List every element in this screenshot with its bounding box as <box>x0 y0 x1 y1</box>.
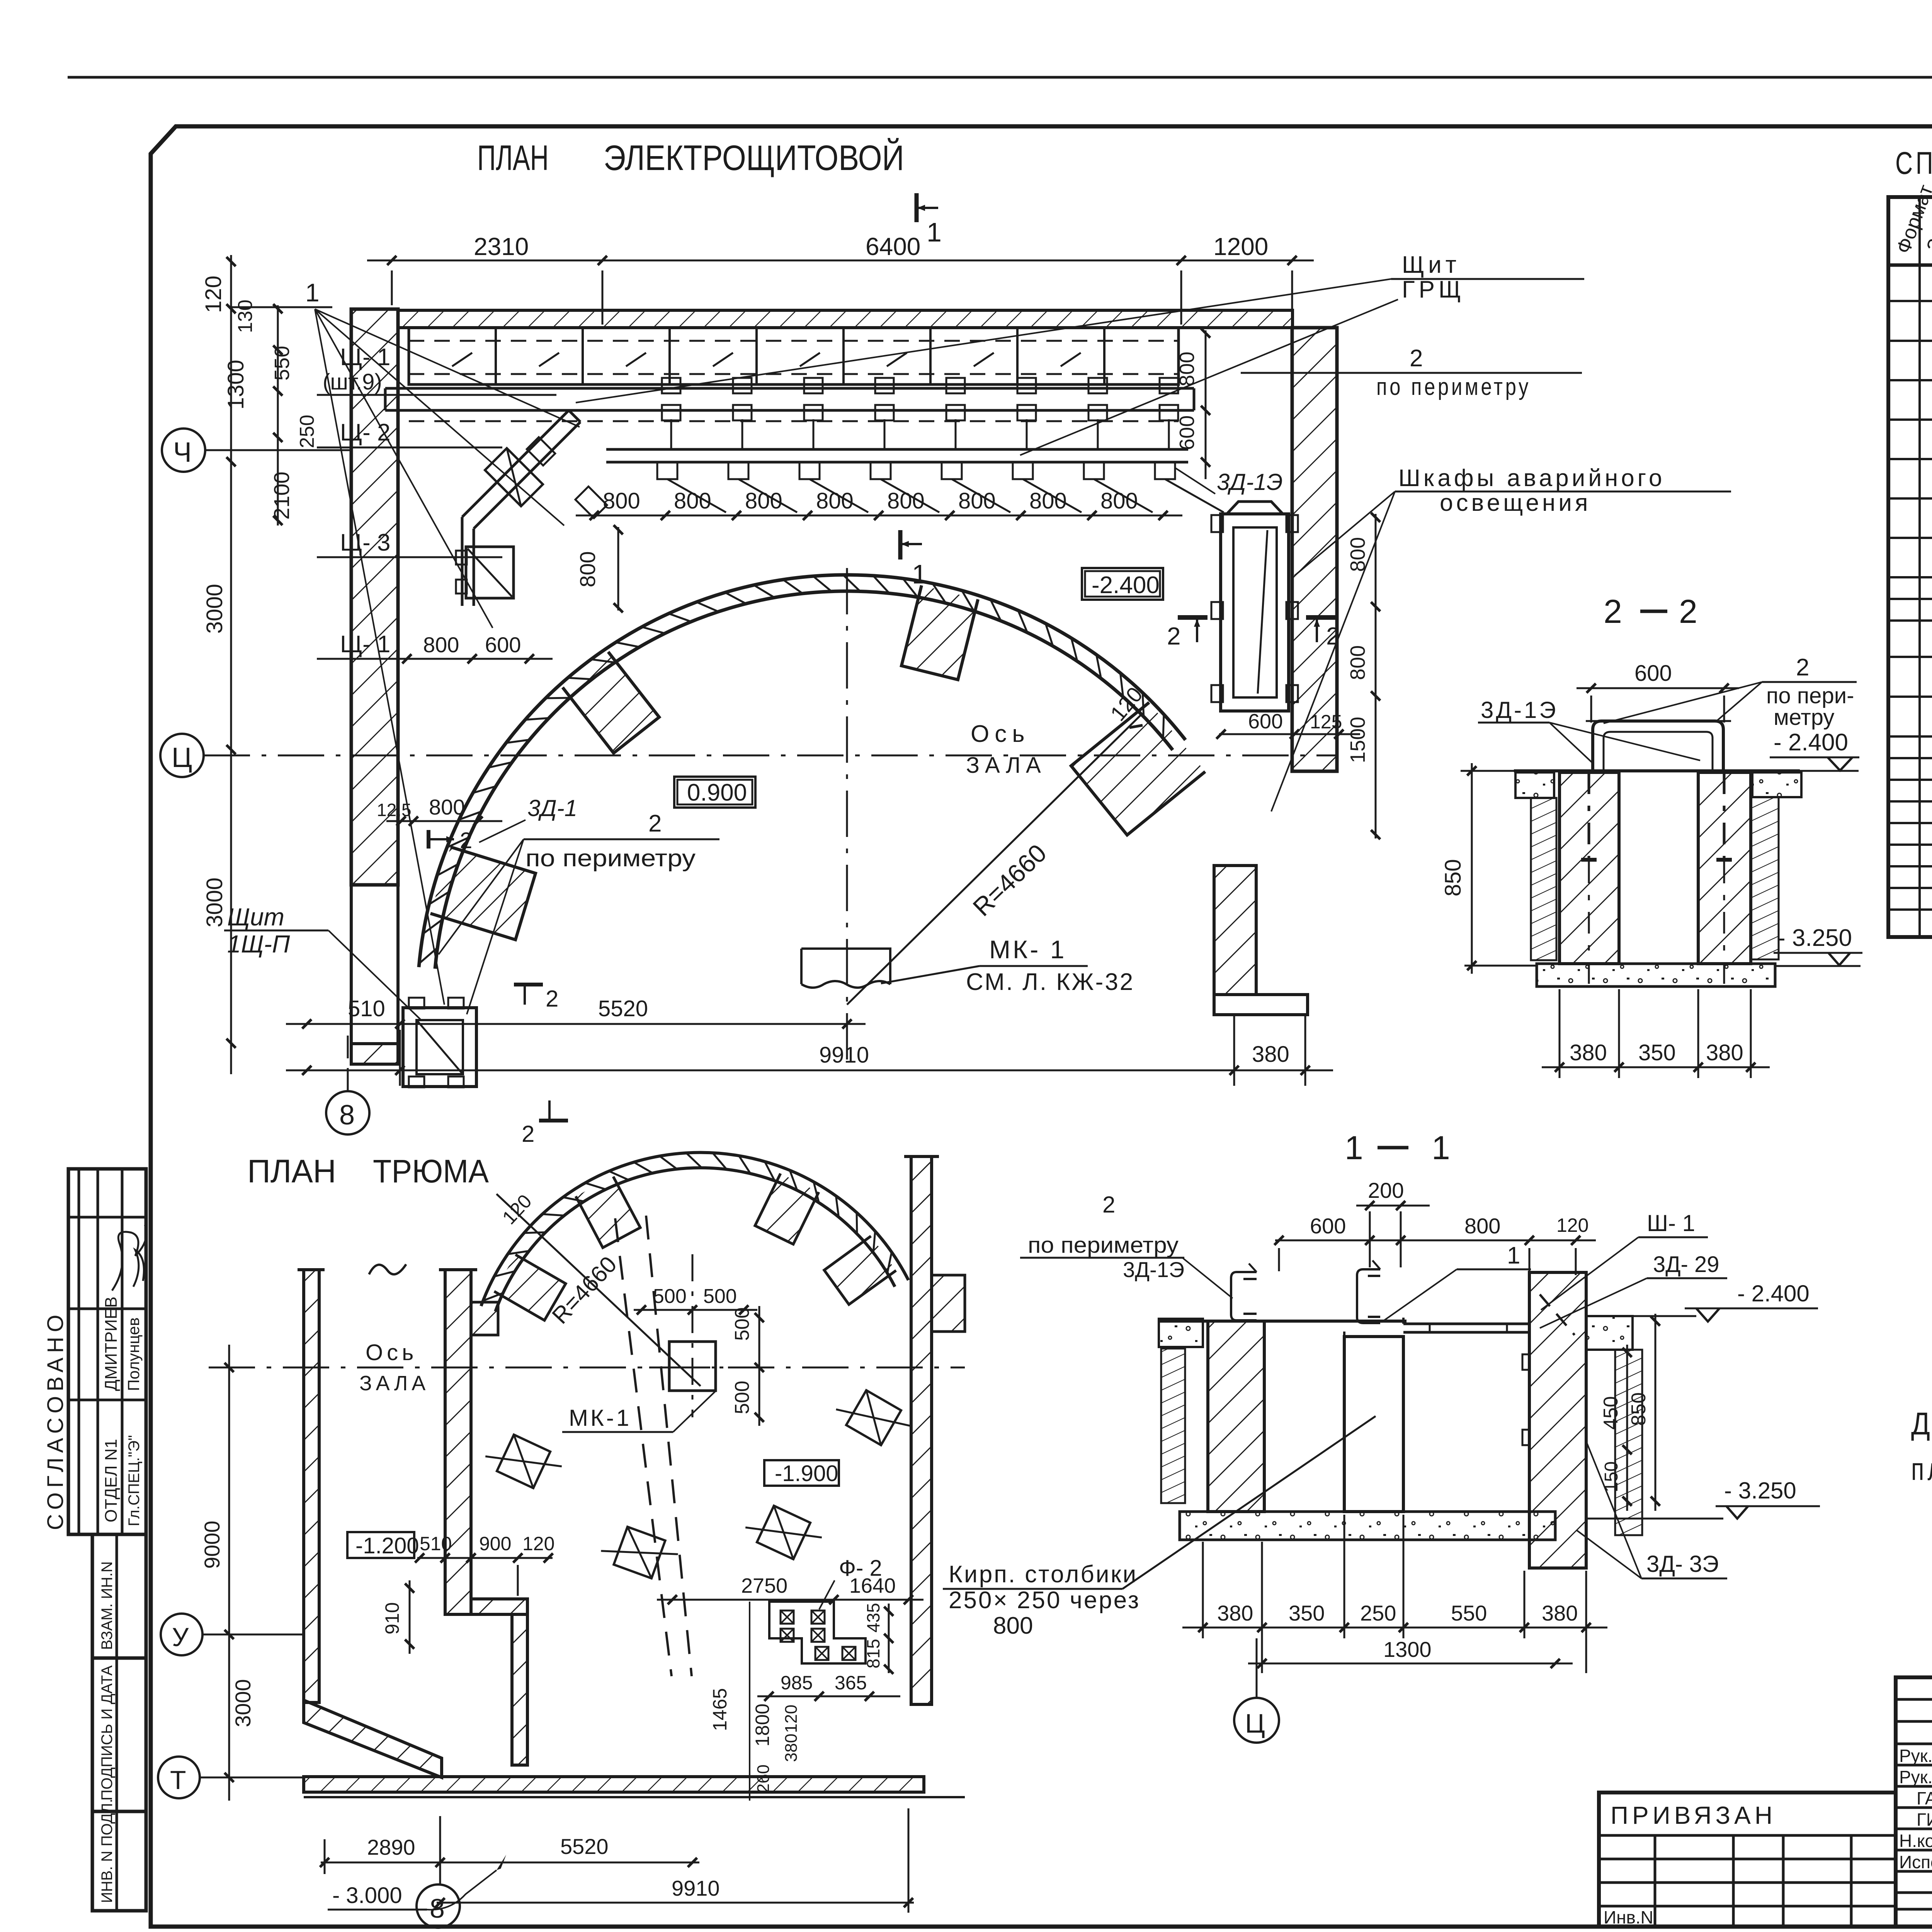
svg-text:по периметру: по периметру <box>1028 1233 1179 1258</box>
svg-text:1: 1 <box>305 278 320 307</box>
svg-text:9910: 9910 <box>672 1876 720 1900</box>
svg-text:Ч: Ч <box>173 437 192 468</box>
svg-text:3000: 3000 <box>202 584 227 634</box>
svg-text:Полунцев: Полунцев <box>124 1317 143 1391</box>
grid circle Ч <box>162 429 205 472</box>
wall top caps and break <box>298 1268 325 1271</box>
busbar 2 clamps <box>657 462 677 479</box>
anchor group Ф-2 <box>769 1602 866 1663</box>
svg-text:12,5: 12,5 <box>377 800 412 820</box>
leader diagonals to dim ticks <box>667 479 726 512</box>
floor line <box>1159 1320 1406 1323</box>
top dims 600 200 800 120 <box>1275 1240 1596 1242</box>
svg-text:- 2.400: - 2.400 <box>1737 1281 1810 1306</box>
svg-text:800: 800 <box>575 551 600 587</box>
svg-text:800: 800 <box>1464 1214 1500 1238</box>
arc wall inner line <box>435 591 1173 969</box>
earth hatch left <box>1161 1349 1185 1503</box>
big room right wall <box>911 1156 932 1704</box>
inner wall vertical to bottom <box>512 1614 527 1765</box>
svg-text:800: 800 <box>993 1612 1033 1639</box>
svg-text:Кирп. столбики: Кирп. столбики <box>949 1561 1138 1588</box>
grid circle Т <box>158 1757 200 1798</box>
МК-1 dims 500 500 <box>634 1309 757 1311</box>
level box -1.900 <box>764 1460 839 1486</box>
earth hatch right <box>1751 797 1779 959</box>
corner cabinet <box>466 547 514 598</box>
svg-text:120: 120 <box>201 276 226 313</box>
wall notch left room <box>471 1302 498 1335</box>
svg-text:800: 800 <box>1175 352 1199 386</box>
level box -1.200 <box>347 1532 414 1558</box>
left room left wall <box>304 1270 319 1702</box>
svg-text:МК- 1: МК- 1 <box>989 935 1066 964</box>
svg-text:Ось: Ось <box>971 721 1030 747</box>
svg-text:Ось: Ось <box>366 1340 417 1365</box>
arc niche 2 <box>901 585 978 680</box>
svg-text:2: 2 <box>1679 593 1697 630</box>
svg-text:- 3.000: - 3.000 <box>332 1883 402 1908</box>
svg-text:1: 1 <box>1345 1129 1363 1167</box>
channel ЗД-1Э lying <box>1593 721 1723 770</box>
busbar 1 <box>385 387 1194 390</box>
top wall band <box>398 310 1293 328</box>
right wall lower block with arc pier <box>1214 866 1256 995</box>
svg-text:365: 365 <box>835 1672 867 1694</box>
svg-text:Рук.АБ-1: Рук.АБ-1 <box>1899 1746 1932 1766</box>
svg-text:Щ- 1: Щ- 1 <box>340 631 390 658</box>
grid circle Ц section <box>1234 1698 1279 1743</box>
svg-text:200: 200 <box>1368 1178 1404 1202</box>
svg-text:3000: 3000 <box>231 1679 255 1727</box>
svg-text:Рук.КБ-1: Рук.КБ-1 <box>1899 1767 1932 1787</box>
left dim chain A <box>230 255 232 1074</box>
svg-text:СМ. Л. КЖ-32: СМ. Л. КЖ-32 <box>966 969 1134 995</box>
panel top plate <box>1402 1318 1405 1324</box>
section flags 2 at 1Щ-П <box>514 983 543 986</box>
svg-text:1200: 1200 <box>1213 233 1268 260</box>
concrete slab right <box>1586 1316 1633 1350</box>
svg-text:ИНВ. N ПОДЛ.: ИНВ. N ПОДЛ. <box>99 1799 116 1903</box>
dim 910 <box>409 1580 411 1654</box>
dims 380 350 380 <box>1542 1066 1770 1068</box>
left pier <box>1208 1321 1264 1512</box>
corner rotated connector 1 <box>527 437 555 466</box>
svg-text:1300: 1300 <box>1383 1637 1432 1662</box>
busbar 1 clamps <box>662 378 680 393</box>
svg-text:2100: 2100 <box>269 471 294 520</box>
1Щ-П dims 125 800 <box>386 820 502 822</box>
left wall lower part <box>351 885 398 1044</box>
left wall bottom band <box>351 1044 398 1064</box>
svg-text:2: 2 <box>1796 654 1809 681</box>
hold arc wall <box>481 1153 908 1306</box>
arc end pier (hatched) <box>1071 702 1205 835</box>
dim row 800x8 <box>576 515 1182 517</box>
svg-text:3Д- 3Э: 3Д- 3Э <box>1646 1551 1719 1577</box>
svg-text:1300: 1300 <box>223 360 248 410</box>
svg-text:1Щ-П: 1Щ-П <box>227 930 290 958</box>
svg-text:-1.200: -1.200 <box>355 1533 419 1558</box>
svg-text:(шт.9): (шт.9) <box>323 369 382 395</box>
bottom dims 2890 5520 <box>321 1862 699 1864</box>
bottom dim line 510/5520 <box>286 1023 866 1025</box>
right wall stub <box>932 1275 965 1332</box>
svg-text:Щит: Щит <box>227 903 284 931</box>
left stamp lower block <box>92 1534 146 1911</box>
hold arc niches <box>494 1255 566 1320</box>
left dim chain B <box>277 305 279 526</box>
svg-text:3Д-1Э: 3Д-1Э <box>1217 469 1283 495</box>
svg-text:ГИП: ГИП <box>1917 1810 1932 1830</box>
svg-text:2310: 2310 <box>474 233 529 260</box>
svg-text:500: 500 <box>653 1285 687 1308</box>
svg-text:550: 550 <box>270 346 294 381</box>
svg-text:6400: 6400 <box>866 233 920 260</box>
spec table grid <box>1888 197 1932 937</box>
svg-text:СОГЛАСОВАНО: СОГЛАСОВАНО <box>43 1310 68 1530</box>
panel row diagonal ticks <box>452 353 472 366</box>
svg-text:510: 510 <box>348 996 385 1021</box>
arc niche 1 <box>563 652 659 753</box>
svg-text:ЗАЛА: ЗАЛА <box>359 1372 429 1395</box>
svg-text:8: 8 <box>430 1893 445 1923</box>
svg-text:ПЛАН: ПЛАН <box>247 1153 336 1189</box>
hold radius line <box>497 1194 701 1386</box>
svg-text:120: 120 <box>782 1705 801 1733</box>
right wall foot slab <box>1214 995 1308 1015</box>
svg-text:2: 2 <box>1326 622 1340 650</box>
МК-1 square <box>669 1342 716 1391</box>
dashed brace in right wall <box>1540 1294 1575 1335</box>
svg-text:800: 800 <box>1100 488 1138 514</box>
bus duct ЗД-29 <box>1403 1323 1529 1325</box>
svg-text:380: 380 <box>782 1734 801 1762</box>
svg-text:9910: 9910 <box>819 1043 869 1068</box>
right wall column <box>1292 328 1337 771</box>
svg-text:5520: 5520 <box>560 1834 609 1859</box>
svg-text:800: 800 <box>674 488 711 514</box>
svg-text:380: 380 <box>1252 1042 1289 1067</box>
concrete slab left <box>1159 1319 1203 1347</box>
svg-text:380: 380 <box>1217 1601 1253 1625</box>
right cabinet top cap <box>1227 502 1283 514</box>
svg-text:800: 800 <box>423 633 459 657</box>
svg-text:850: 850 <box>1628 1392 1650 1426</box>
dims 435 815 <box>888 1604 890 1673</box>
svg-text:ЗАЛА: ЗАЛА <box>966 753 1046 778</box>
svg-text:Щит: Щит <box>1402 252 1460 278</box>
corner cabinet clamps <box>456 551 467 565</box>
floor line <box>1514 769 1800 772</box>
svg-text:ГАП: ГАП <box>1917 1788 1932 1808</box>
svg-text:130: 130 <box>234 299 257 333</box>
svg-text:5520: 5520 <box>598 996 648 1021</box>
svg-text:1: 1 <box>1507 1242 1520 1269</box>
right cabinet clamps <box>1211 515 1223 532</box>
left room right wall <box>445 1270 471 1614</box>
svg-text:3Д-1Э: 3Д-1Э <box>1481 697 1558 723</box>
svg-text:2: 2 <box>522 1121 534 1147</box>
svg-text:850: 850 <box>1440 859 1466 896</box>
left room diagonal wall <box>304 1700 442 1777</box>
svg-text:Исполн.: Исполн. <box>1899 1852 1932 1872</box>
svg-text:500: 500 <box>731 1307 753 1341</box>
svg-text:ВЗАМ. ИН.N: ВЗАМ. ИН.N <box>99 1561 116 1650</box>
svg-text:9000: 9000 <box>200 1520 224 1569</box>
hold axis line <box>209 1367 965 1369</box>
wall clamps <box>1522 1354 1529 1370</box>
right cabinet dim chain <box>1375 514 1377 838</box>
svg-text:800: 800 <box>816 488 854 514</box>
svg-text:350: 350 <box>1289 1601 1325 1625</box>
svg-text:800: 800 <box>745 488 782 514</box>
svg-text:510: 510 <box>420 1533 452 1554</box>
dims 985 365 <box>757 1696 900 1697</box>
svg-text:Н.контр.: Н.контр. <box>1899 1831 1932 1851</box>
svg-text:2: 2 <box>460 828 472 853</box>
svg-text:380: 380 <box>1706 1040 1743 1065</box>
grid circle Ц <box>160 734 204 777</box>
svg-text:250× 250 через: 250× 250 через <box>949 1587 1140 1614</box>
earth hatch right <box>1615 1350 1642 1535</box>
middle channel <box>1357 1269 1380 1323</box>
svg-text:1800: 1800 <box>752 1704 773 1747</box>
svg-text:600: 600 <box>1634 661 1672 686</box>
right dim chains 450 150 850 <box>1626 1345 1628 1511</box>
svg-text:910: 910 <box>381 1602 403 1634</box>
tilted squares <box>482 1428 565 1495</box>
svg-text:1640: 1640 <box>849 1574 896 1597</box>
panel row большой щит <box>409 328 1179 384</box>
svg-text:500: 500 <box>731 1381 753 1414</box>
arc wall outer line <box>419 575 1185 967</box>
svg-text:освещения: освещения <box>1440 490 1591 516</box>
corner rotated connector 2 <box>575 486 607 518</box>
svg-text:Ш- 1: Ш- 1 <box>1647 1210 1695 1236</box>
svg-text:ГРЩ: ГРЩ <box>1402 276 1465 303</box>
title block texts <box>1604 1691 1932 1927</box>
section flag 1 mid <box>898 530 903 560</box>
grid circle У <box>161 1614 202 1655</box>
svg-text:ПОДПИСЬ И ДАТА: ПОДПИСЬ И ДАТА <box>99 1665 116 1801</box>
svg-text:Щ- 3: Щ- 3 <box>340 529 390 556</box>
flag 2 near 1Щ-П dims <box>427 830 430 849</box>
svg-text:1: 1 <box>912 559 927 589</box>
svg-text:2750: 2750 <box>741 1574 787 1597</box>
svg-text:1: 1 <box>1432 1129 1450 1167</box>
svg-text:планом подвала л. АР-: планом подвала л. АР- <box>1911 1452 1932 1487</box>
svg-text:- 3.250: - 3.250 <box>1724 1478 1796 1503</box>
grid circle 8 <box>326 1091 369 1134</box>
svg-text:ЭЛЕКТРОЩИТОВОЙ: ЭЛЕКТРОЩИТОВОЙ <box>604 138 904 178</box>
svg-text:2890: 2890 <box>367 1835 415 1859</box>
radius line R=4660 <box>847 713 1143 1005</box>
МК-1 element box <box>801 949 890 988</box>
left dim chain 9000/3000 <box>228 1345 230 1801</box>
centerline vertical <box>846 568 848 1070</box>
svg-text:250: 250 <box>296 415 318 448</box>
svg-text:800: 800 <box>887 488 925 514</box>
svg-text:- 2.400: - 2.400 <box>1774 729 1848 756</box>
left stamp rotated texts <box>43 1296 143 1903</box>
svg-text:120: 120 <box>1556 1214 1588 1236</box>
svg-text:Ц: Ц <box>172 742 192 773</box>
svg-text:2: 2 <box>1604 593 1622 630</box>
svg-text:-2.400: -2.400 <box>1092 572 1160 599</box>
panel 1Щ-П clamps <box>409 998 424 1009</box>
left stamp upper block <box>68 1169 146 1534</box>
svg-text:3Д- 29: 3Д- 29 <box>1653 1252 1719 1277</box>
left wall (hatched) <box>351 309 398 885</box>
middle brick column <box>1344 1337 1403 1512</box>
svg-text:500: 500 <box>703 1285 737 1308</box>
right inner dim chain C <box>1205 330 1207 479</box>
sheet outer top rule <box>68 76 1932 79</box>
svg-text:600: 600 <box>1248 710 1283 733</box>
svg-text:450: 450 <box>1600 1396 1622 1430</box>
svg-text:125: 125 <box>1310 711 1342 733</box>
inner wall step horizontal <box>471 1599 527 1614</box>
bottom dim line 9910/380 <box>286 1070 1333 1071</box>
dashed crane lines <box>615 1218 672 1676</box>
svg-text:1465: 1465 <box>709 1688 731 1731</box>
arc wall hatch ticks <box>1163 713 1164 740</box>
level mark -2.400 <box>1082 568 1163 600</box>
svg-text:38: 38 <box>736 1929 769 1932</box>
bottom dims section 1-1 <box>1182 1627 1607 1629</box>
svg-text:ПЛАН: ПЛАН <box>477 138 549 178</box>
svg-text:800: 800 <box>1029 488 1067 514</box>
svg-text:2: 2 <box>1102 1192 1115 1218</box>
bottom dim 9910 <box>437 1902 914 1904</box>
svg-text:2: 2 <box>1410 345 1423 372</box>
svg-text:ОТДЕЛ N1: ОТДЕЛ N1 <box>102 1439 121 1522</box>
svg-text:3000: 3000 <box>202 878 227 927</box>
svg-text:3Д-1: 3Д-1 <box>527 795 577 821</box>
section flags 2 right cabinet <box>1178 615 1207 620</box>
svg-text:600: 600 <box>1175 415 1199 450</box>
svg-text:900: 900 <box>479 1533 511 1554</box>
svg-text:СПЕЦИФИКАЦИЯ РАСХОДА МАТЕР: СПЕЦИФИКАЦИЯ РАСХОДА МАТЕРИАЛОВ НА ЭЛЕМЕ… <box>1895 146 1932 181</box>
svg-text:250: 250 <box>1360 1601 1396 1625</box>
stamp signatures <box>112 1225 146 1291</box>
svg-text:по периметру: по периметру <box>1376 374 1531 400</box>
dims 510 900 120 <box>417 1557 553 1559</box>
svg-text:1: 1 <box>927 217 942 247</box>
svg-text:800: 800 <box>603 488 640 514</box>
svg-text:380: 380 <box>1542 1601 1578 1625</box>
vertical dim 800 at corner cabinet <box>617 527 619 611</box>
top dimension chain <box>367 260 1314 262</box>
concrete slab left <box>1515 772 1554 798</box>
svg-text:Ц: Ц <box>1245 1708 1265 1738</box>
earth hatch left <box>1531 798 1556 960</box>
title block left part rows <box>1599 1834 1896 1837</box>
svg-text:800: 800 <box>1346 537 1369 572</box>
svg-text:R=4660: R=4660 <box>967 838 1052 922</box>
svg-text:1500: 1500 <box>1346 717 1369 763</box>
svg-text:800: 800 <box>429 795 465 819</box>
diagonal panel on run <box>485 448 543 506</box>
svg-text:ТРЮМА: ТРЮМА <box>373 1153 489 1189</box>
level mark 0.900 <box>674 777 755 808</box>
svg-text:380: 380 <box>1570 1040 1607 1065</box>
panel 1Щ-П box <box>403 1008 476 1087</box>
svg-text:435: 435 <box>863 1603 883 1633</box>
svg-text:815: 815 <box>863 1639 883 1668</box>
panel row dividers <box>495 328 497 384</box>
anchor bolt lines <box>1588 772 1590 862</box>
bottom wall band <box>304 1777 924 1792</box>
brick pier left <box>1560 772 1619 964</box>
svg-text:- 3.250: - 3.250 <box>1777 925 1852 951</box>
svg-text:600: 600 <box>1310 1214 1346 1238</box>
svg-text:аварийного: аварийного <box>1507 465 1665 492</box>
svg-text:Инв.N: Инв.N <box>1604 1907 1653 1927</box>
svg-text:350: 350 <box>1638 1040 1676 1065</box>
corner diagonal run <box>462 410 569 517</box>
busbar 2 <box>606 448 1188 451</box>
svg-text:2: 2 <box>546 986 558 1012</box>
svg-text:120: 120 <box>522 1533 554 1554</box>
svg-text:600: 600 <box>485 633 521 657</box>
svg-text:Т: Т <box>170 1765 186 1795</box>
svg-text:-1.900: -1.900 <box>775 1461 838 1486</box>
dim 600 top <box>1577 687 1739 689</box>
svg-text:2: 2 <box>1167 622 1181 650</box>
dims 2750 1640 <box>657 1599 923 1601</box>
svg-text:800: 800 <box>1346 645 1369 680</box>
right cabinet ЗД-1Э <box>1221 514 1289 711</box>
svg-text:8: 8 <box>339 1100 355 1131</box>
svg-text:Шкафы: Шкафы <box>1398 465 1497 492</box>
cabinet bottom dim 600 125 <box>1219 733 1360 735</box>
svg-text:ДМИТРИЕВ: ДМИТРИЕВ <box>102 1296 121 1391</box>
hold arc hatch ticks <box>887 1251 892 1274</box>
svg-text:985: 985 <box>781 1672 813 1694</box>
svg-text:0.900: 0.900 <box>687 779 747 806</box>
svg-text:ПРИВЯЗАН: ПРИВЯЗАН <box>1611 1801 1776 1829</box>
footing <box>1180 1512 1555 1540</box>
brick pier right <box>1698 772 1751 964</box>
svg-text:800: 800 <box>958 488 996 514</box>
svg-text:У: У <box>172 1622 189 1652</box>
concrete slab right <box>1752 772 1801 797</box>
arc left end pilaster (hatched) <box>430 847 536 940</box>
grid circle 8 hold <box>417 1884 460 1928</box>
svg-text:Гл.СПЕЦ."Э": Гл.СПЕЦ."Э" <box>126 1435 143 1526</box>
svg-text:3Д-1Э: 3Д-1Э <box>1123 1257 1184 1282</box>
spec table texts <box>1892 182 1932 731</box>
section flag 1 top <box>915 193 919 222</box>
svg-text:120: 120 <box>498 1190 536 1228</box>
svg-text:550: 550 <box>1451 1601 1487 1625</box>
svg-text:метру: метру <box>1774 705 1834 730</box>
right wall <box>1529 1272 1586 1568</box>
footing <box>1537 964 1775 986</box>
corner assembly dims 800 600 <box>407 658 553 660</box>
axis ось зала <box>204 755 1338 757</box>
dim 850 <box>1471 763 1473 974</box>
svg-text:МК-1: МК-1 <box>569 1405 631 1431</box>
title block outline <box>1599 1677 1932 1927</box>
svg-text:2: 2 <box>648 810 662 837</box>
svg-text:Данный чертеж рассматривать: Данный чертеж рассматривать совместно с <box>1911 1406 1932 1441</box>
svg-text:по периметру: по периметру <box>526 845 696 872</box>
dim 1300 <box>1248 1663 1573 1665</box>
svg-text:260: 260 <box>754 1765 773 1793</box>
